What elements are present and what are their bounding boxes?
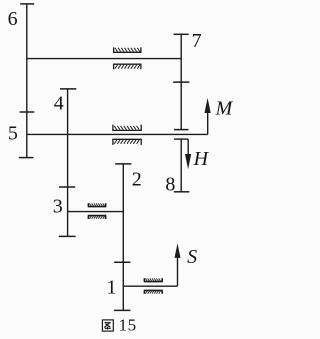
support A lower end ticks <box>113 64 115 69</box>
gear tick on shaft 6 <box>20 111 35 113</box>
support C lower end ticks <box>87 216 89 219</box>
svg-text:3: 3 <box>53 195 63 217</box>
shaft 6 bottom end cap <box>19 157 34 159</box>
svg-text:S: S <box>187 246 197 268</box>
bearing support C (on link 3) <box>88 203 106 219</box>
wire: top horizontal link 6-7 <box>27 58 181 60</box>
wire: horizontal link 1 <box>123 285 177 287</box>
svg-text:M: M <box>215 97 234 119</box>
support A lower bar <box>113 63 142 65</box>
support C lower hatching <box>90 216 105 219</box>
support C lower bar <box>88 215 106 217</box>
shaft 2 top end cap <box>115 163 131 165</box>
svg-text:1: 1 <box>107 276 117 298</box>
caption glyph 图 <box>102 320 113 331</box>
support D upper bar <box>144 281 163 283</box>
svg-text:4: 4 <box>54 93 64 115</box>
shaft 8 bottom end cap <box>174 191 190 193</box>
support D lower bar <box>144 289 163 291</box>
shaft 2 vertical <box>122 164 124 311</box>
bearing support B (on link 5) <box>112 125 142 145</box>
bearing support D (on link 1) <box>144 278 163 294</box>
support C upper bar <box>88 206 106 208</box>
svg-text:7: 7 <box>192 30 202 52</box>
arrow H head <box>185 154 191 169</box>
support D lower hatching <box>146 291 161 294</box>
support C upper end ticks <box>87 203 89 206</box>
gear tick on shaft 7 <box>173 81 189 83</box>
svg-text:H: H <box>193 148 210 170</box>
support B lower bar <box>112 138 142 140</box>
arrow M head <box>205 98 211 113</box>
arrow H shaft <box>187 139 189 154</box>
shaft 6 top end cap <box>20 3 34 5</box>
wire: main horizontal link 5 <box>27 133 208 135</box>
shaft 7 top end cap <box>174 33 189 35</box>
bearing support A (on link 6-7) <box>113 47 142 69</box>
gear tick on shaft 1 <box>114 261 130 263</box>
arrow S shaft <box>177 258 179 287</box>
svg-text:8: 8 <box>165 173 175 195</box>
svg-text:6: 6 <box>8 8 18 30</box>
shaft 7 vertical <box>180 34 182 129</box>
support A upper bar <box>113 51 142 53</box>
support B upper bar <box>112 129 142 131</box>
support A upper hatching <box>115 48 140 52</box>
arrow M shaft <box>207 112 209 135</box>
wire: horizontal link 3 <box>68 211 124 213</box>
support D lower end ticks <box>143 290 145 293</box>
gear tick on shaft 3 <box>59 186 75 188</box>
shaft 8 vertical <box>180 139 182 192</box>
shaft 4 top end cap <box>60 88 76 90</box>
support B lower hatching <box>114 140 139 144</box>
shaft 7 bottom end cap <box>174 129 189 131</box>
shaft 3 bottom end cap <box>59 235 76 237</box>
svg-text:15: 15 <box>119 316 137 335</box>
support A lower hatching <box>115 65 140 69</box>
shaft 6 vertical <box>26 4 28 158</box>
support D upper hatching <box>146 278 161 281</box>
support B upper hatching <box>114 126 139 130</box>
support C upper hatching <box>90 203 105 206</box>
svg-text:2: 2 <box>132 169 142 191</box>
support B upper end ticks <box>112 125 114 131</box>
arrow S head <box>175 243 181 258</box>
shaft 1 bottom end cap <box>114 309 130 311</box>
wire: carrier link H <box>174 138 188 140</box>
shaft 4 vertical <box>67 89 69 237</box>
support A upper end ticks <box>113 47 115 52</box>
svg-text:5: 5 <box>8 122 18 144</box>
support D upper end ticks <box>143 278 145 281</box>
support B lower end ticks <box>112 139 114 145</box>
